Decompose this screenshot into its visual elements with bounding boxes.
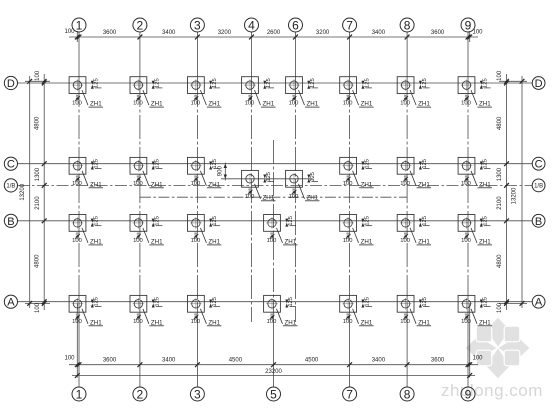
svg-text:2100: 2100	[35, 196, 41, 210]
svg-text:1300: 1300	[35, 167, 41, 181]
svg-text:ZH1: ZH1	[208, 181, 220, 188]
svg-text:900: 900	[217, 166, 223, 177]
svg-text:100: 100	[245, 194, 255, 200]
svg-text:100: 100	[343, 319, 353, 325]
column ZH1 at B-5	[264, 215, 298, 246]
left dimension line	[42, 74, 47, 310]
svg-text:2: 2	[137, 18, 144, 32]
svg-text:ZH1: ZH1	[361, 319, 373, 326]
svg-text:125: 125	[310, 172, 316, 182]
column ZH1 at C-8	[397, 157, 431, 188]
svg-text:100: 100	[191, 181, 201, 187]
svg-text:4: 4	[248, 18, 255, 32]
svg-text:100: 100	[267, 238, 277, 244]
column ZH1 at B-1	[69, 215, 103, 246]
grid line 2	[139, 32, 141, 388]
grid bubble D left	[4, 76, 17, 90]
watermark logo	[465, 317, 530, 379]
svg-text:100: 100	[35, 302, 41, 313]
svg-text:125: 125	[483, 78, 489, 88]
svg-text:3400: 3400	[162, 358, 176, 364]
grid bubble 7 top	[343, 18, 357, 32]
column ZH1 at C-2	[130, 157, 164, 188]
column ZH1 at C-7	[340, 157, 374, 188]
top dimension line	[69, 35, 478, 40]
svg-text:125: 125	[483, 297, 489, 307]
svg-text:4800: 4800	[35, 254, 41, 268]
svg-text:ZH1: ZH1	[151, 181, 163, 188]
svg-text:ZH1: ZH1	[307, 101, 319, 108]
svg-text:1: 1	[76, 387, 83, 401]
svg-text:100: 100	[461, 238, 471, 244]
svg-text:ZH1: ZH1	[90, 181, 102, 188]
svg-text:100: 100	[400, 100, 410, 106]
grid bubble 7 bottom	[343, 387, 357, 401]
grid line 7	[349, 32, 351, 388]
outline extension top-right	[469, 31, 471, 42]
left total dimension line	[27, 76, 32, 308]
grid bubble 1/B right	[532, 179, 545, 192]
svg-text:125: 125	[364, 78, 370, 88]
svg-text:125: 125	[94, 297, 100, 307]
column ZH1 at B-7	[340, 215, 374, 246]
svg-text:125: 125	[483, 159, 489, 169]
svg-text:100: 100	[400, 181, 410, 187]
svg-text:8: 8	[404, 18, 411, 32]
svg-text:100: 100	[497, 70, 503, 81]
grid bubble 9 top	[461, 18, 475, 32]
svg-text:100: 100	[343, 100, 353, 106]
svg-text:125: 125	[155, 297, 161, 307]
svg-text:100: 100	[191, 238, 201, 244]
grid line 1/B	[18, 184, 533, 186]
svg-text:3400: 3400	[162, 30, 176, 36]
svg-text:125: 125	[422, 297, 428, 307]
svg-text:ZH1: ZH1	[90, 319, 102, 326]
column ZH1 at B-2	[130, 215, 164, 246]
outline extension right-top	[499, 80, 527, 82]
grid bubble C left	[4, 157, 17, 171]
grid bubble 2 top	[133, 18, 147, 32]
grid bubble B left	[4, 214, 17, 228]
svg-text:100: 100	[400, 319, 410, 325]
svg-text:ZH1: ZH1	[151, 101, 163, 108]
svg-text:D: D	[535, 78, 543, 90]
grid bubble 3 bottom	[190, 387, 204, 401]
outline extension bottom-right	[469, 303, 471, 377]
grid line 5	[273, 140, 275, 388]
svg-text:100: 100	[400, 238, 410, 244]
outline extension left-bottom	[25, 302, 50, 304]
svg-text:9: 9	[465, 387, 472, 401]
column ZH1 at A-9	[458, 295, 492, 326]
grid bubble 5 bottom	[267, 387, 281, 401]
svg-text:ZH1: ZH1	[361, 101, 373, 108]
svg-text:100: 100	[289, 100, 299, 106]
svg-text:100: 100	[72, 181, 82, 187]
column ZH1 at C-3	[188, 157, 222, 188]
column ZH1 at B-3	[188, 215, 222, 246]
svg-text:125: 125	[310, 78, 316, 88]
column ZH1 offset row at 4	[242, 170, 276, 201]
grid bubble 9 bottom	[461, 387, 475, 401]
svg-text:100: 100	[461, 319, 471, 325]
svg-text:125: 125	[94, 216, 100, 226]
svg-text:1: 1	[76, 18, 83, 32]
svg-text:100: 100	[461, 181, 471, 187]
svg-text:125: 125	[364, 297, 370, 307]
svg-text:100: 100	[72, 100, 82, 106]
svg-text:ZH1: ZH1	[285, 319, 297, 326]
svg-text:125: 125	[266, 78, 272, 88]
svg-text:4500: 4500	[229, 358, 243, 364]
svg-text:ZH1: ZH1	[361, 239, 373, 246]
sub axis line between 1/B and B	[140, 196, 407, 198]
grid bubble 8 bottom	[400, 387, 414, 401]
svg-text:ZH1: ZH1	[479, 181, 491, 188]
grid bubble D right	[532, 77, 545, 90]
svg-text:ZH1: ZH1	[208, 319, 220, 326]
svg-text:1/B: 1/B	[534, 184, 543, 190]
svg-text:125: 125	[94, 78, 100, 88]
grid bubble C right	[532, 157, 545, 170]
svg-text:125: 125	[483, 216, 489, 226]
column ZH1 at D-8	[397, 77, 431, 108]
svg-text:4500: 4500	[305, 358, 319, 364]
svg-text:125: 125	[266, 172, 272, 182]
svg-text:125: 125	[212, 78, 218, 88]
column ZH1 at A-5	[264, 295, 298, 326]
svg-text:100: 100	[461, 100, 471, 106]
svg-text:125: 125	[422, 159, 428, 169]
column ZH1 at A-7	[340, 295, 374, 326]
svg-text:ZH1: ZH1	[479, 319, 491, 326]
svg-text:ZH1: ZH1	[90, 239, 102, 246]
svg-text:ZH1: ZH1	[90, 101, 102, 108]
svg-text:2600: 2600	[267, 30, 281, 36]
right total dimension line	[520, 76, 525, 308]
svg-text:100: 100	[245, 100, 255, 106]
svg-text:3600: 3600	[431, 358, 445, 364]
grid line 3	[196, 32, 198, 388]
svg-text:100: 100	[72, 319, 82, 325]
svg-text:4800: 4800	[497, 116, 503, 130]
svg-text:8: 8	[404, 387, 411, 401]
dimension 900 line	[224, 163, 227, 181]
svg-text:3400: 3400	[372, 30, 386, 36]
svg-text:100: 100	[343, 238, 353, 244]
svg-text:100: 100	[497, 302, 503, 313]
svg-text:125: 125	[155, 78, 161, 88]
svg-text:13200: 13200	[20, 183, 26, 200]
svg-text:13200: 13200	[512, 187, 518, 204]
svg-text:125: 125	[288, 297, 294, 307]
svg-text:125: 125	[155, 159, 161, 169]
grid bubble 1 top	[72, 18, 86, 32]
grid line C	[18, 163, 533, 165]
svg-text:1/B: 1/B	[6, 184, 15, 190]
column ZH1 at B-9	[458, 215, 492, 246]
column ZH1 at A-3	[188, 295, 222, 326]
svg-text:100: 100	[35, 70, 41, 81]
svg-text:125: 125	[212, 297, 218, 307]
grid bubble 8 top	[400, 18, 414, 32]
svg-text:B: B	[535, 216, 542, 228]
svg-text:3600: 3600	[103, 30, 117, 36]
svg-text:7: 7	[346, 387, 353, 401]
svg-text:3400: 3400	[372, 358, 386, 364]
outline extension left-top	[25, 80, 50, 82]
svg-text:3200: 3200	[316, 30, 330, 36]
grid bubble 2 bottom	[133, 387, 147, 401]
grid line 9	[467, 32, 469, 388]
svg-text:100: 100	[191, 100, 201, 106]
svg-text:100: 100	[267, 319, 277, 325]
column ZH1 at A-2	[130, 295, 164, 326]
svg-text:2: 2	[137, 387, 144, 401]
grid line 1	[78, 32, 80, 388]
grid line B	[18, 220, 533, 222]
svg-text:C: C	[535, 159, 543, 171]
svg-text:100: 100	[64, 356, 75, 362]
svg-text:ZH1: ZH1	[418, 319, 430, 326]
column ZH1 at D-4	[242, 77, 276, 108]
svg-text:2100: 2100	[497, 196, 503, 210]
grid bubble 1/B left	[4, 179, 17, 192]
svg-text:3: 3	[194, 18, 201, 32]
grid line 6	[295, 32, 297, 322]
svg-text:5: 5	[270, 387, 277, 401]
svg-text:6: 6	[292, 18, 299, 32]
outline extension top-left	[76, 31, 78, 42]
svg-text:ZH1: ZH1	[285, 239, 297, 246]
grid bubble A left	[4, 295, 17, 309]
svg-text:100: 100	[191, 319, 201, 325]
svg-text:ZH1: ZH1	[208, 239, 220, 246]
svg-text:ZH1: ZH1	[361, 181, 373, 188]
svg-text:100: 100	[133, 181, 143, 187]
svg-text:ZH1: ZH1	[418, 101, 430, 108]
svg-text:125: 125	[212, 159, 218, 169]
svg-text:100: 100	[472, 356, 483, 362]
svg-text:100: 100	[343, 181, 353, 187]
outline extension right-bottom	[499, 302, 527, 304]
right dimension line	[504, 74, 509, 310]
column ZH1 offset row at 6	[286, 170, 320, 201]
column ZH1 at A-1	[69, 295, 103, 326]
svg-text:100: 100	[289, 194, 299, 200]
column ZH1 at D-2	[130, 77, 164, 108]
svg-text:125: 125	[155, 216, 161, 226]
svg-text:3: 3	[194, 387, 201, 401]
column ZH1 at B-8	[397, 215, 431, 246]
svg-text:1300: 1300	[497, 167, 503, 181]
svg-text:125: 125	[422, 216, 428, 226]
svg-text:100: 100	[72, 238, 82, 244]
grid bubble 6 top	[289, 18, 303, 32]
svg-text:A: A	[535, 297, 543, 309]
svg-text:100: 100	[133, 238, 143, 244]
column ZH1 at A-8	[397, 295, 431, 326]
svg-text:zhulong.com: zhulong.com	[441, 381, 543, 400]
svg-text:100: 100	[133, 100, 143, 106]
svg-text:ZH1: ZH1	[418, 239, 430, 246]
svg-text:125: 125	[422, 78, 428, 88]
svg-text:4800: 4800	[497, 254, 503, 268]
svg-text:D: D	[7, 78, 15, 90]
svg-text:ZH1: ZH1	[263, 194, 275, 201]
svg-text:C: C	[7, 159, 15, 171]
grid line 8	[406, 32, 408, 388]
svg-text:ZH1: ZH1	[151, 239, 163, 246]
svg-text:ZH1: ZH1	[208, 101, 220, 108]
svg-text:4800: 4800	[35, 116, 41, 130]
svg-text:125: 125	[212, 216, 218, 226]
svg-text:B: B	[7, 216, 14, 228]
column ZH1 at D-3	[188, 77, 222, 108]
column ZH1 at C-1	[69, 157, 103, 188]
column ZH1 at D-9	[458, 77, 492, 108]
svg-text:125: 125	[94, 159, 100, 169]
svg-text:3600: 3600	[103, 358, 117, 364]
column ZH1 at D-1	[69, 77, 103, 108]
column ZH1 at C-9	[458, 157, 492, 188]
outline extension bottom-left	[76, 303, 78, 377]
svg-text:23200: 23200	[265, 369, 282, 375]
svg-text:125: 125	[364, 159, 370, 169]
bottom dimension line	[69, 362, 478, 367]
svg-text:3200: 3200	[218, 30, 232, 36]
bottom total dimension line	[72, 373, 475, 378]
grid bubble 4 top	[245, 18, 259, 32]
grid bubble A right	[532, 295, 545, 308]
svg-text:ZH1: ZH1	[307, 194, 319, 201]
grid bubble 1 bottom	[72, 387, 86, 401]
svg-text:100: 100	[472, 30, 483, 36]
svg-text:3600: 3600	[431, 30, 445, 36]
svg-text:125: 125	[288, 216, 294, 226]
svg-text:7: 7	[346, 18, 353, 32]
svg-text:ZH1: ZH1	[151, 319, 163, 326]
grid line A	[18, 301, 533, 303]
grid bubble B right	[532, 214, 545, 227]
grid line D	[18, 82, 533, 84]
svg-text:ZH1: ZH1	[479, 101, 491, 108]
grid bubble 3 top	[190, 18, 204, 32]
svg-text:ZH1: ZH1	[479, 239, 491, 246]
grid line 4	[251, 32, 253, 322]
svg-text:100: 100	[133, 319, 143, 325]
column ZH1 at D-7	[340, 77, 374, 108]
svg-text:9: 9	[465, 18, 472, 32]
column ZH1 at D-6	[286, 77, 320, 108]
svg-text:125: 125	[364, 216, 370, 226]
svg-text:A: A	[7, 297, 15, 309]
offset column axis line	[221, 178, 313, 180]
svg-text:ZH1: ZH1	[418, 181, 430, 188]
svg-text:ZH1: ZH1	[263, 101, 275, 108]
